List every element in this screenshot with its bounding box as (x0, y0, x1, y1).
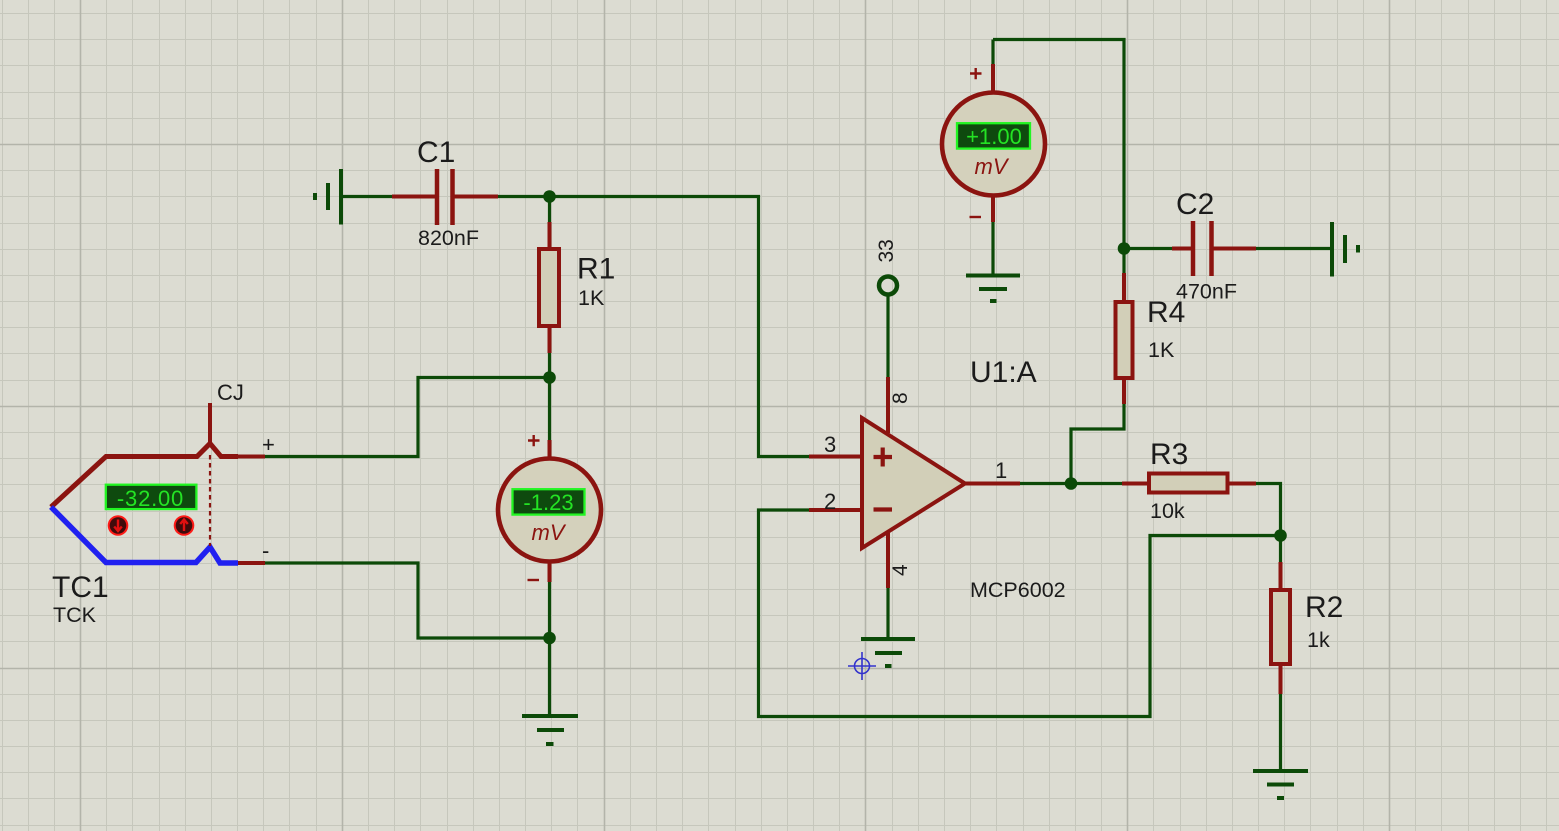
wire: top rail voltmeter PV2 to node F (993, 40, 1124, 249)
wire: node D up to R4 bottom (1071, 404, 1124, 484)
svg-text:R4: R4 (1147, 296, 1185, 329)
svg-text:mV: mV (975, 154, 1010, 179)
voltmeter PV2 plus mark (970, 68, 982, 79)
svg-text:8: 8 (889, 392, 912, 404)
resistor R4 (1116, 302, 1133, 378)
CJ dashed reference line (209, 455, 211, 546)
voltmeter PV1 plus mark (528, 435, 540, 446)
wire: power terminal 33 down to pin8 (886, 295, 889, 377)
pin: R2 bottom (1279, 665, 1283, 694)
power terminal 33 (879, 277, 897, 295)
pin: R3 left (1122, 482, 1149, 486)
svg-text:820nF: 820nF (418, 226, 479, 250)
op-amp minus input mark (874, 507, 893, 511)
wire: node C down to ground (548, 638, 551, 716)
svg-text:1: 1 (995, 458, 1007, 483)
wire: node F down to R4 top pin (1122, 249, 1125, 274)
wire: node A right and down to op-amp pin3 (550, 197, 810, 457)
ground (right of C2) (1332, 222, 1358, 277)
wire: top rail down to voltmeter PV2 plus (991, 40, 994, 65)
wire: node A down to R1 top (548, 197, 551, 223)
wire: node F right to C2 left pin (1124, 247, 1172, 250)
pin: R2 top (1279, 562, 1283, 590)
pin: PV1 plus (548, 440, 552, 460)
svg-text:3: 3 (824, 432, 836, 457)
wire: node D right to R3 left pin (1071, 482, 1122, 485)
svg-text:R1: R1 (577, 253, 615, 286)
ground (op-amp pin4) (861, 639, 915, 666)
svg-text:2: 2 (824, 489, 836, 514)
wire: voltmeter PV2 minus to ground (991, 222, 994, 275)
origin marker crosshair (848, 652, 876, 680)
pin: C1 right (455, 195, 499, 199)
junction node F (1118, 242, 1131, 255)
junction node C (543, 632, 556, 645)
wire: node B down to voltmeter PV1 plus (548, 378, 551, 441)
junction node D (1065, 477, 1078, 490)
svg-text:C2: C2 (1176, 188, 1214, 221)
wire: C2 right pin to right ground (1256, 247, 1332, 250)
wire: feedback loop node E to op-amp pin2 (759, 510, 1281, 717)
svg-text:CJ: CJ (217, 380, 244, 405)
PIN STUBS (238, 64, 1281, 694)
svg-text:+: + (262, 432, 275, 457)
svg-text:U1:A: U1:A (970, 356, 1037, 389)
junction node A (543, 190, 556, 203)
capacitor C2 (1193, 221, 1212, 276)
ground (below R2) (1253, 771, 1308, 798)
junction node E (1274, 529, 1287, 542)
wire: op-amp output pin1 to node D (1020, 482, 1071, 485)
voltmeter PV2 display (957, 123, 1030, 148)
wire: node B left to TC1 plus terminal (265, 378, 550, 457)
TC1 up button (174, 515, 195, 536)
svg-text:TC1: TC1 (52, 571, 109, 604)
wire: C1 right pin to node A (498, 195, 550, 198)
voltmeter PV2 body (942, 93, 1045, 196)
voltmeter PV1 body (498, 459, 601, 562)
wire: node E down to R2 top (1279, 536, 1282, 563)
resistor R1 (539, 249, 559, 326)
wire: R2 bottom to ground (1279, 694, 1282, 771)
TC1 down button (108, 515, 129, 536)
op-amp plus input mark (874, 448, 893, 467)
pin 4 stub of op-amp (886, 533, 890, 588)
wire: R3 right pin down to node E (1256, 484, 1281, 536)
svg-text:4: 4 (889, 564, 912, 576)
voltmeter PV1 display (513, 489, 585, 514)
junction node B (543, 371, 556, 384)
CJ stem wire (208, 403, 212, 446)
pin 8 stub of op-amp (886, 377, 890, 433)
pin: TC1 plus (238, 455, 265, 459)
op-amp U1 triangle (862, 418, 965, 548)
pin: R1 bottom (548, 326, 552, 353)
svg-text:R2: R2 (1305, 591, 1343, 624)
svg-text:MCP6002: MCP6002 (970, 578, 1066, 602)
pin: PV2 plus (991, 64, 995, 93)
pin: R3 right (1228, 482, 1256, 486)
pin: PV2 minus (991, 195, 995, 222)
ground (below voltmeter PV1) (522, 716, 578, 744)
wire: R1 bottom to node B (548, 353, 551, 378)
svg-text:TCK: TCK (53, 603, 97, 627)
thermocouple TC1 blue limb (51, 507, 238, 563)
svg-text:R3: R3 (1150, 438, 1188, 471)
wire: ground to C1 left pin (341, 195, 392, 198)
svg-text:1K: 1K (1148, 338, 1175, 362)
ground (below voltmeter PV2) (966, 276, 1020, 302)
svg-text:10k: 10k (1150, 499, 1185, 523)
resistor R2 (1271, 590, 1290, 664)
svg-text:-1.23: -1.23 (523, 490, 573, 515)
svg-text:1K: 1K (578, 286, 605, 310)
pin 3 stub of op-amp (809, 455, 862, 459)
pin 2 stub of op-amp (809, 508, 862, 512)
pin: R1 top (548, 222, 552, 249)
pin: C1 left (392, 195, 435, 199)
svg-text:-: - (262, 538, 269, 563)
voltmeter PV1 minus mark (528, 579, 540, 581)
resistor R3 (1149, 474, 1228, 493)
voltmeter PV2 minus mark (970, 216, 982, 218)
pin: R4 bottom (1122, 378, 1126, 404)
pin: C2 left (1172, 247, 1191, 251)
pin: PV1 minus (548, 561, 552, 582)
pin: C2 right (1213, 247, 1256, 251)
svg-text:+1.00: +1.00 (966, 124, 1022, 149)
pin: TC1 minus (238, 561, 265, 565)
capacitor C1 (437, 169, 453, 225)
svg-text:C1: C1 (417, 136, 455, 169)
thermocouple TC1 hot junction maroon limb (51, 444, 238, 508)
ground (left of C1) (315, 169, 341, 225)
pin 1 output stub of op-amp (965, 482, 1020, 486)
svg-text:33: 33 (875, 239, 898, 262)
wire: TC1 minus terminal to node C (265, 563, 550, 638)
wire: voltmeter PV1 minus to node C (548, 582, 551, 638)
svg-text:-32.00: -32.00 (117, 486, 184, 511)
wire: op-amp pin4 down to ground (886, 588, 889, 639)
svg-text:mV: mV (532, 520, 567, 545)
thermocouple TC1 display (106, 485, 197, 509)
pin: R4 top (1122, 273, 1126, 302)
svg-text:1k: 1k (1307, 628, 1330, 652)
